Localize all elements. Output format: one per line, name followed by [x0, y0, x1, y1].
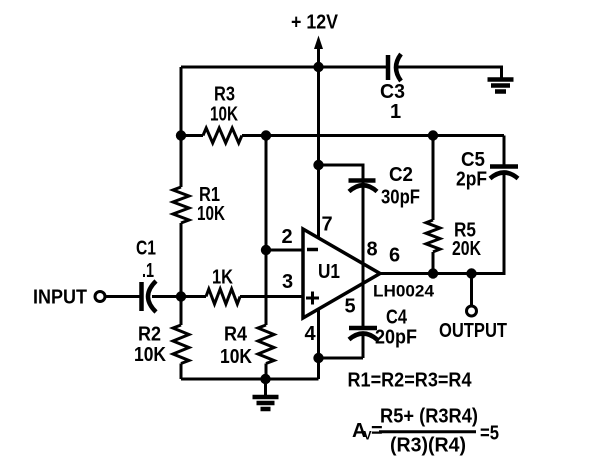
resistor R1: [173, 187, 189, 223]
svg-text:(R3)(R4): (R3)(R4): [390, 435, 466, 457]
ground (bottom): [253, 379, 279, 409]
capacitor C2: [349, 181, 378, 192]
junction output row / OUTPUT drop: [466, 268, 476, 278]
wire pin 7 lead into op-amp: [317, 165, 320, 239]
wire C4 bottom lead: [362, 335, 365, 358]
svg-text:C1: C1: [136, 238, 156, 260]
wire left column lower (input row to R2): [180, 297, 183, 326]
svg-text:LH0024: LH0024: [373, 282, 435, 301]
svg-text:20K: 20K: [452, 238, 481, 260]
svg-text:20pF: 20pF: [375, 327, 417, 349]
svg-text:R5+ (R3R4): R5+ (R3R4): [380, 406, 478, 428]
svg-text:INPUT: INPUT: [33, 287, 87, 309]
svg-text:10K: 10K: [197, 203, 225, 225]
resistor 1K: [206, 289, 240, 304]
op-amp U1 minus sign: [307, 248, 318, 252]
op-amp U1 plus sign: [306, 292, 319, 305]
wire output row: [380, 272, 504, 275]
svg-text:10K: 10K: [134, 344, 166, 366]
wire pin 2 lead: [266, 249, 303, 252]
junction R3 row / R4 column: [261, 130, 271, 140]
capacitor C5: [490, 167, 518, 179]
wire top rail right of C3: [398, 67, 502, 78]
capacitor C3: [388, 54, 401, 81]
wire supply column down to C2 branch: [317, 67, 320, 165]
svg-text:=5: =5: [480, 423, 499, 445]
svg-text:3: 3: [282, 271, 293, 293]
wire R3 row right to C5 column: [242, 134, 504, 137]
wire C5 column top lead: [503, 136, 506, 168]
svg-text:R3: R3: [214, 84, 235, 106]
wire drop to bottom rail: [317, 358, 320, 379]
junction output row / R5: [428, 268, 438, 278]
wire R3 row left lead: [181, 134, 203, 137]
svg-text:8: 8: [367, 239, 378, 261]
wire input to C1: [106, 295, 141, 298]
svg-text:U1: U1: [318, 261, 340, 283]
resistor R2: [173, 325, 189, 364]
INPUT terminal: [95, 292, 105, 302]
svg-text:6: 6: [389, 245, 400, 267]
svg-text:OUTPUT: OUTPUT: [439, 320, 507, 342]
junction top rail / supply column: [313, 62, 323, 72]
wire pin 4 lead: [317, 310, 320, 358]
wire bottom rail: [181, 378, 319, 381]
wire R4 column middle (pin2 row to R4): [265, 250, 268, 325]
wire left column middle (R1 to input row): [180, 223, 183, 297]
junction R3 row / R5 column: [428, 130, 438, 140]
capacitor C4: [349, 328, 377, 340]
op-amp U1 triangle: [303, 229, 380, 318]
formula Av: [352, 406, 499, 457]
wire pin4 to C4 bottom: [319, 357, 364, 360]
svg-text:2: 2: [282, 226, 293, 248]
wire C5 column bottom to output row: [471, 174, 504, 274]
resistor R3: [203, 128, 242, 143]
svg-text:R1=R2=R3=R4: R1=R2=R3=R4: [348, 370, 473, 392]
junction bottom rail / ground: [260, 374, 270, 384]
wire C2 branch horizontal: [319, 164, 364, 167]
wire OUTPUT drop: [470, 274, 473, 307]
junction pin4 / bottom drop: [313, 353, 323, 363]
wire left column bottom (R2 to bottom rail): [180, 364, 183, 380]
wire C1 to input junction: [152, 295, 181, 298]
resistor R4: [258, 325, 274, 364]
svg-text:.1: .1: [142, 260, 154, 282]
svg-text:7: 7: [322, 214, 333, 236]
svg-text:R2: R2: [138, 324, 161, 346]
svg-text:10K: 10K: [210, 104, 238, 126]
svg-text:4: 4: [305, 323, 317, 345]
svg-text:1K: 1K: [212, 267, 233, 289]
junction C2 branch / pin7: [313, 160, 323, 170]
wire input row to 1K: [181, 295, 206, 298]
wire R4 column bottom: [265, 364, 268, 380]
junction pin2 row / R4 column: [261, 245, 271, 255]
capacitor C1: [142, 281, 157, 312]
ground (top right): [488, 80, 514, 92]
OUTPUT terminal: [467, 306, 477, 316]
wire R4 column upper (R3 row to pin2 row): [265, 136, 268, 251]
svg-text:+ 12V: + 12V: [291, 12, 339, 34]
+12V supply arrow: [314, 36, 323, 68]
svg-text:30pF: 30pF: [381, 187, 420, 209]
svg-text:C4: C4: [386, 307, 408, 329]
svg-text:5: 5: [345, 296, 356, 318]
wire R5 column top lead: [432, 136, 435, 221]
wire top rail left of C3: [181, 66, 386, 69]
svg-text:R4: R4: [224, 324, 248, 346]
junction R3 row / left column: [176, 130, 186, 140]
wire R5 bottom lead: [432, 252, 435, 274]
svg-text:C3: C3: [380, 81, 405, 103]
resistor R5: [426, 220, 440, 252]
junction input row / left column: [176, 291, 186, 301]
svg-text:10K: 10K: [220, 346, 252, 368]
svg-text:1: 1: [390, 101, 401, 123]
wire left column upper (top rail to R1): [180, 67, 183, 187]
wire 1K to pin 3: [240, 295, 303, 298]
svg-text:C2: C2: [389, 164, 413, 186]
wire pin 8 / C2 column: [362, 164, 365, 329]
svg-text:2pF: 2pF: [456, 169, 487, 191]
